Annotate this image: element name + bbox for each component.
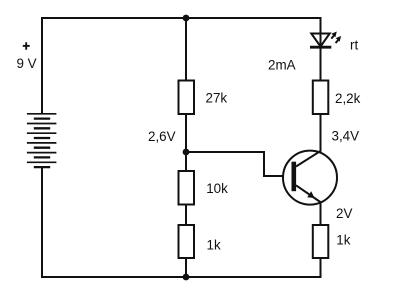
LED rt (diode triangle): [311, 34, 329, 47]
wire node to 10k: [185, 152, 187, 172]
svg-text:2,6V: 2,6V: [148, 129, 176, 144]
LED light arrow 2: [336, 36, 342, 43]
LED light arrow 1: [331, 32, 337, 39]
resistor 2,2k: [313, 81, 329, 115]
wire left rail lower (battery minus to bottom rail): [41, 167, 43, 277]
wire collector (2,2k to transistor): [320, 114, 322, 152]
wire 1k to bottom rail: [185, 258, 187, 277]
transistor body circle: [283, 151, 337, 205]
wire 10k to 1k: [185, 205, 187, 226]
junction node 2,6V (divider tap): [183, 149, 190, 156]
label + (battery positive): [23, 42, 30, 49]
transistor base bar: [292, 162, 297, 192]
svg-text:3,4V: 3,4V: [332, 128, 360, 143]
wire left rail upper (plus to battery): [41, 17, 43, 114]
LED cathode bar: [310, 46, 331, 49]
battery 9V: [27, 114, 57, 167]
svg-text:2mA: 2mA: [268, 57, 296, 72]
svg-text:2V: 2V: [336, 206, 352, 221]
wire bottom rail: [41, 276, 322, 278]
wire LED branch (top rail through LED to 2,2k): [320, 18, 322, 81]
resistor 1k (divider lower): [179, 225, 195, 258]
svg-text:27k: 27k: [206, 91, 228, 106]
resistor 27k: [179, 81, 195, 115]
svg-text:10k: 10k: [206, 181, 228, 196]
resistor 1k (emitter): [313, 225, 329, 258]
junction node bottom rail: [183, 274, 190, 281]
transistor emitter lead: [296, 185, 321, 202]
transistor collector lead: [296, 151, 321, 167]
svg-text:rt: rt: [350, 37, 358, 52]
wire divider top (node to 27k): [185, 18, 187, 81]
wire top rail: [42, 17, 322, 19]
junction node top (divider tap on + rail): [183, 15, 190, 22]
svg-text:1k: 1k: [207, 238, 221, 253]
wire base (node 2,6V to transistor base): [186, 152, 292, 176]
transistor NPN: [283, 151, 337, 205]
transistor emitter arrow: [307, 191, 314, 198]
svg-text:2,2k: 2,2k: [335, 91, 361, 106]
svg-text:9 V: 9 V: [17, 56, 37, 71]
wire 27k to node: [185, 114, 187, 152]
wire emitter resistor to bottom rail: [320, 258, 322, 277]
svg-text:1k: 1k: [336, 233, 350, 248]
resistor 10k: [179, 171, 195, 205]
wire emitter (transistor to 1k): [320, 202, 322, 226]
